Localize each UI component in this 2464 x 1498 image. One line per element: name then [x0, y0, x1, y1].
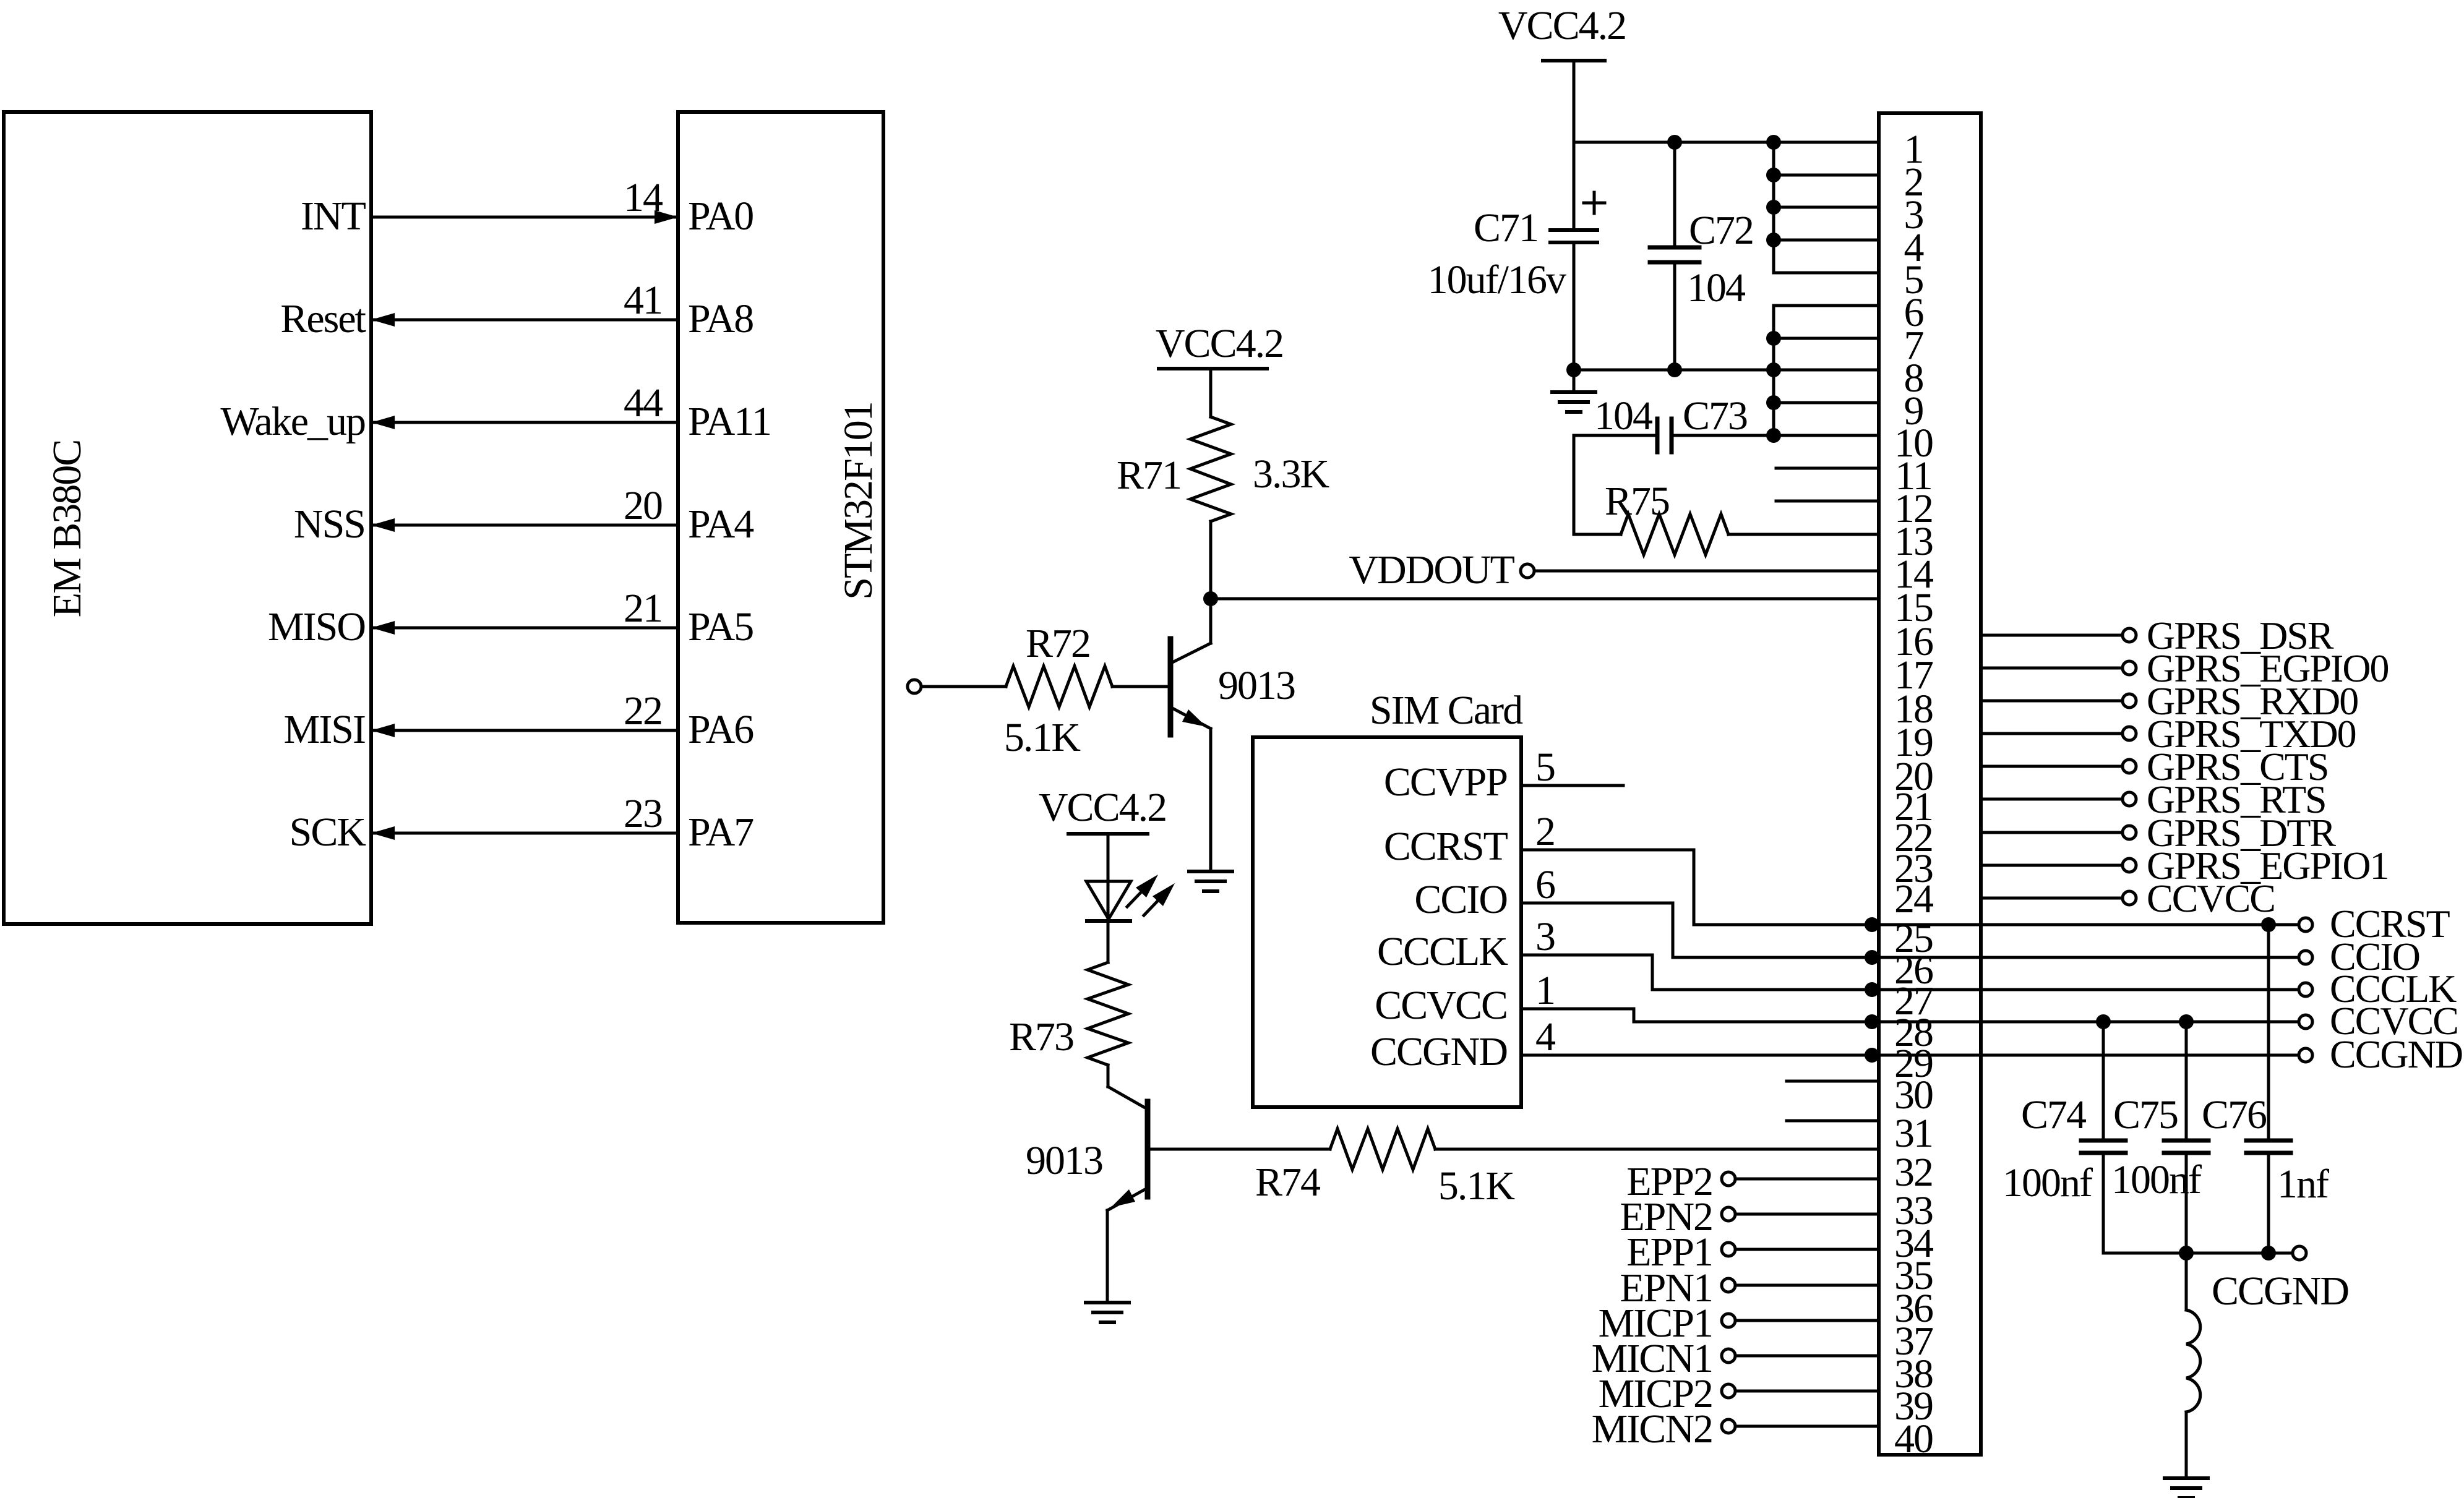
node circle CCVCC [2123, 891, 2136, 905]
wire pin11 stub [1776, 467, 1879, 470]
resistor R71 3.3K [1190, 417, 1231, 521]
svg-text:CCVPP: CCVPP [1384, 760, 1507, 805]
svg-text:104: 104 [1594, 393, 1652, 439]
connector J1 40-pin box [1879, 113, 1981, 1455]
LED emission arrows [1127, 892, 1141, 907]
svg-text:2: 2 [1535, 809, 1555, 854]
node circle MICN2 [1722, 1419, 1735, 1433]
node circle GPRS_CTS [2123, 760, 2136, 773]
svg-text:44: 44 [624, 380, 663, 426]
svg-text:20: 20 [624, 483, 662, 528]
wire pin4 [1774, 239, 1879, 242]
net CCIO wire SIM to connector pin26 and out [1521, 903, 2299, 957]
wire MICN1 to connector [1735, 1355, 1879, 1358]
wire vertical bus pins 1-5 [1772, 142, 1775, 273]
svg-text:3.3K: 3.3K [1253, 452, 1329, 497]
junction dot CCVCC at pin28 [1865, 1014, 1879, 1029]
LED D1 [1086, 881, 1131, 919]
wire pin7 [1774, 337, 1879, 340]
wire VCC to LED [1107, 834, 1110, 921]
node circle CCCLK [2299, 983, 2312, 996]
capacitor C72 104 [1673, 142, 1676, 247]
svg-text:104: 104 [1687, 265, 1745, 310]
svg-text:R74: R74 [1255, 1160, 1320, 1205]
node circle EPN2 [1722, 1207, 1735, 1221]
node circle CCVCC [2299, 1015, 2312, 1029]
wire pin6 [1774, 304, 1879, 307]
node circle GPRS_RXD0 [2123, 694, 2136, 708]
node circle CCRST [2299, 918, 2312, 931]
svg-text:5: 5 [1535, 745, 1555, 790]
svg-text:PA11: PA11 [688, 399, 771, 444]
junction dot CCGND at pin29 [1865, 1048, 1879, 1063]
wire VDDOUT to pin14 [1534, 570, 1879, 573]
svg-text:C71: C71 [1474, 205, 1538, 250]
node circle GPRS_RTS [2123, 792, 2136, 806]
svg-text:Reset: Reset [280, 296, 366, 341]
svg-text:40: 40 [1894, 1416, 1933, 1462]
svg-text:CCIO: CCIO [1414, 877, 1507, 922]
node circle CCGND [2299, 1048, 2312, 1062]
wire Q1 emitter to ground [1209, 729, 1213, 871]
wire R72 to Q1 base [1112, 685, 1166, 688]
wire EPP1 to connector [1735, 1248, 1879, 1251]
svg-text:STM32F101: STM32F101 [836, 402, 881, 599]
junction dot CCRST to C76 [2261, 917, 2276, 932]
junction dot C72 bottom [1667, 362, 1682, 377]
svg-text:4: 4 [1535, 1014, 1555, 1059]
svg-text:6: 6 [1535, 862, 1555, 907]
svg-text:C73: C73 [1683, 393, 1747, 439]
transistor Q2 9013 [1108, 1087, 1144, 1107]
svg-text:R71: R71 [1117, 453, 1181, 498]
junction dot bus-C75/inductor [2179, 1246, 2194, 1260]
svg-text:R73: R73 [1009, 1014, 1073, 1059]
svg-text:CCGND: CCGND [2212, 1269, 2348, 1314]
IC module EM B380C [4, 112, 371, 924]
svg-text:5.1K: 5.1K [1004, 715, 1081, 760]
svg-text:22: 22 [624, 688, 662, 734]
node circle GPRS_DTR [2123, 826, 2136, 839]
inductor L1 [2185, 1253, 2188, 1310]
junction dot bus-C76 [2261, 1246, 2276, 1260]
arrow into SCK [371, 826, 395, 840]
junction dot bus top [1766, 135, 1781, 150]
arrow into MISI [371, 724, 395, 737]
svg-text:CCCLK: CCCLK [1377, 929, 1508, 974]
resistor R75 [1574, 533, 1621, 536]
svg-text:MISI: MISI [284, 707, 365, 752]
svg-text:C72: C72 [1689, 208, 1753, 253]
wire pin1 bus [1574, 141, 1879, 144]
wire R75 to pin13 [1728, 533, 1879, 536]
svg-text:PA4: PA4 [688, 502, 753, 547]
junction dot pin9 [1766, 395, 1781, 410]
net CCCLK wire SIM to connector pin27 and out [1521, 955, 2299, 990]
junction dot C72 top [1667, 135, 1682, 150]
wire Wake_up to PA11 [371, 421, 678, 424]
node circle CCIO [2299, 951, 2312, 964]
svg-text:CCRST: CCRST [1384, 824, 1508, 869]
arrow into MISO [371, 621, 395, 635]
wire R73 to Q2 collector [1107, 1065, 1110, 1087]
svg-text:MISO: MISO [268, 604, 365, 649]
svg-text:1: 1 [1535, 968, 1555, 1013]
wire pin to CCVCC [1981, 897, 2123, 900]
wire pin31 stub [1787, 1119, 1879, 1123]
wire VCC to R71 [1209, 369, 1213, 417]
wire EPP2 to connector [1735, 1178, 1879, 1181]
svg-text:9013: 9013 [1026, 1138, 1102, 1183]
SIM Card connector box [1253, 737, 1521, 1107]
svg-text:R72: R72 [1026, 621, 1090, 666]
junction dot pin10 [1766, 428, 1781, 443]
svg-text:C75: C75 [2113, 1092, 2178, 1137]
svg-text:PA8: PA8 [688, 296, 753, 341]
wire SCK to PA7 [371, 832, 678, 835]
svg-text:R75: R75 [1605, 479, 1669, 524]
arrow into PA0 [655, 210, 678, 224]
svg-text:Wake_up: Wake_up [220, 399, 365, 444]
net CCRST wire SIM to connector pin25 and out [1521, 850, 2299, 925]
resistor R74 5.1K [1330, 1129, 1435, 1170]
svg-text:VCC4.2: VCC4.2 [1498, 3, 1626, 48]
svg-text:PA7: PA7 [688, 810, 753, 855]
ground under Q1 [1189, 870, 1232, 873]
capacitor C75 100nf [2185, 1022, 2188, 1141]
wire R74 to pin32 [1435, 1148, 1879, 1151]
wire Q2 emitter to ground [1106, 1210, 1109, 1303]
node circle GPRS_DSR [2123, 628, 2136, 642]
wire pin30 stub [1787, 1080, 1879, 1083]
svg-text:CCVCC: CCVCC [2147, 876, 2275, 920]
wire pin to GPRS_CTS [1981, 765, 2123, 768]
node circle MICN1 [1722, 1349, 1735, 1363]
svg-text:1nf: 1nf [2277, 1162, 2329, 1207]
connector pin numbers 1-40 [1894, 127, 1933, 1462]
svg-text:VCC4.2: VCC4.2 [1039, 785, 1166, 830]
wire pin to GPRS_EGPIO0 [1981, 667, 2123, 670]
wire Reset to PA8 [371, 319, 678, 322]
wire MICN2 to connector [1735, 1425, 1879, 1428]
node circle MICP2 [1722, 1384, 1735, 1398]
wire node down to Q1 collector [1209, 599, 1213, 643]
node circle GPRS_TXD0 [2123, 727, 2136, 740]
wire EPN1 to connector [1735, 1284, 1879, 1287]
svg-text:PA5: PA5 [688, 604, 753, 649]
svg-text:EM B380C: EM B380C [45, 440, 90, 618]
junction dot gnd bus left [1566, 362, 1581, 377]
junction dot pin7 [1766, 331, 1781, 346]
junction dot C75 top [2179, 1014, 2194, 1029]
capacitor C73 104 [1574, 434, 1657, 437]
svg-text:CCGND: CCGND [1370, 1029, 1507, 1074]
junction dot CCCLK at pin27 [1865, 982, 1879, 997]
wire INT to PA0 [371, 216, 678, 219]
junction dot pin4 [1766, 233, 1781, 247]
svg-text:41: 41 [624, 278, 662, 323]
node circle MICP1 [1722, 1314, 1735, 1327]
wire pin10 [1774, 434, 1879, 437]
svg-text:CCGND: CCGND [2330, 1032, 2462, 1076]
IC U-MCU STM32F101 [678, 112, 883, 923]
net CCVCC wire SIM to connector pin28 and out [1521, 1009, 2299, 1022]
svg-text:MICN2: MICN2 [1592, 1406, 1712, 1452]
wire CCGND bottom bus [2103, 1252, 2293, 1255]
svg-text:VDDOUT: VDDOUT [1349, 547, 1514, 593]
wire pin to GPRS_RXD0 [1981, 700, 2123, 703]
input node open circle (R72) [908, 680, 921, 693]
svg-text:C76: C76 [2202, 1092, 2267, 1137]
svg-text:SIM Card: SIM Card [1370, 688, 1523, 733]
wire R71 to collector node [1209, 521, 1213, 599]
capacitor C71 10uf/16v [1573, 142, 1576, 230]
wire MICP2 to connector [1735, 1390, 1879, 1393]
junction dot pin2 [1766, 168, 1781, 182]
wire VCC to node [1573, 61, 1576, 142]
wire pin2 [1774, 174, 1879, 177]
wire MICP1 to connector [1735, 1319, 1879, 1322]
wire C73 to R75 [1573, 435, 1576, 534]
node circle EPP2 [1722, 1172, 1735, 1186]
svg-text:C74: C74 [2021, 1092, 2086, 1137]
resistor R73 [1088, 962, 1128, 1065]
wire pin to GPRS_EGPIO1 [1981, 864, 2123, 867]
arrow into Reset [371, 313, 395, 327]
ground under C71 [1573, 370, 1576, 392]
svg-text:10uf/16v: 10uf/16v [1428, 257, 1566, 302]
wire NSS to PA4 [371, 524, 678, 527]
node circle CCGND (bottom) [2293, 1246, 2306, 1260]
node circle EPP1 [1722, 1243, 1735, 1256]
svg-text:PA0: PA0 [688, 194, 753, 239]
node circle GPRS_EGPIO0 [2123, 661, 2136, 675]
junction dot bus pin8 [1766, 362, 1781, 377]
svg-text:24: 24 [1894, 876, 1933, 922]
transistor Q1 9013 [1174, 643, 1211, 662]
wire vertical bus pins 6-10 [1772, 306, 1775, 435]
wire MISI to PA6 [371, 729, 678, 732]
ground under Q2 [1086, 1301, 1129, 1304]
junction dot collector node [1203, 591, 1218, 606]
resistor R72 5.1K [921, 685, 1006, 688]
net CCGND wire SIM to connector pin29 and out [1521, 1054, 2299, 1057]
wire SIM CCVPP stub [1521, 784, 1623, 787]
wire pin5 [1774, 272, 1879, 275]
ground under inductor [2165, 1476, 2208, 1480]
wire pin to GPRS_RTS [1981, 798, 2123, 801]
capacitor C74 100nf [2102, 1022, 2105, 1141]
svg-text:21: 21 [624, 586, 662, 631]
wire node to pin15 [1211, 597, 1879, 601]
wire pin to GPRS_TXD0 [1981, 732, 2123, 735]
svg-text:PA6: PA6 [688, 707, 753, 752]
wire LED to R73 [1107, 921, 1110, 962]
svg-text:100nf: 100nf [2111, 1157, 2202, 1202]
arrow into Wake_up [371, 416, 395, 429]
svg-text:CCVCC: CCVCC [1375, 983, 1507, 1028]
wire EPN2 to connector [1735, 1213, 1879, 1216]
wire pin to GPRS_DSR [1981, 634, 2123, 637]
svg-text:INT: INT [301, 194, 366, 239]
junction dot C74 top [2096, 1014, 2111, 1029]
node circle EPN1 [1722, 1278, 1735, 1292]
junction dot CCIO at pin26 [1865, 950, 1879, 965]
wire Q2 base to R74 [1151, 1148, 1330, 1151]
wire ground bus / pin8 line [1574, 369, 1879, 372]
junction dot pin3 [1766, 200, 1781, 215]
svg-text:100nf: 100nf [2003, 1160, 2093, 1205]
node circle GPRS_EGPIO1 [2123, 858, 2136, 872]
plus sign of C71 [1584, 202, 1605, 205]
svg-text:NSS: NSS [294, 502, 365, 547]
arrow into NSS [371, 518, 395, 532]
svg-text:VCC4.2: VCC4.2 [1156, 321, 1283, 366]
svg-text:23: 23 [624, 791, 662, 836]
svg-text:SCK: SCK [290, 810, 366, 855]
wire pin9 [1774, 401, 1879, 404]
wire MISO to PA5 [371, 627, 678, 630]
svg-text:9013: 9013 [1218, 663, 1295, 708]
capacitor C76 1nf [2267, 925, 2270, 1141]
wire pin3 [1774, 206, 1879, 209]
svg-text:14: 14 [624, 175, 663, 220]
svg-text:5.1K: 5.1K [1438, 1163, 1515, 1209]
svg-text:3: 3 [1535, 914, 1555, 959]
wire pin12 stub [1776, 500, 1879, 503]
wire pin to GPRS_DTR [1981, 831, 2123, 834]
junction dot CCRST at pin25 [1865, 917, 1879, 932]
